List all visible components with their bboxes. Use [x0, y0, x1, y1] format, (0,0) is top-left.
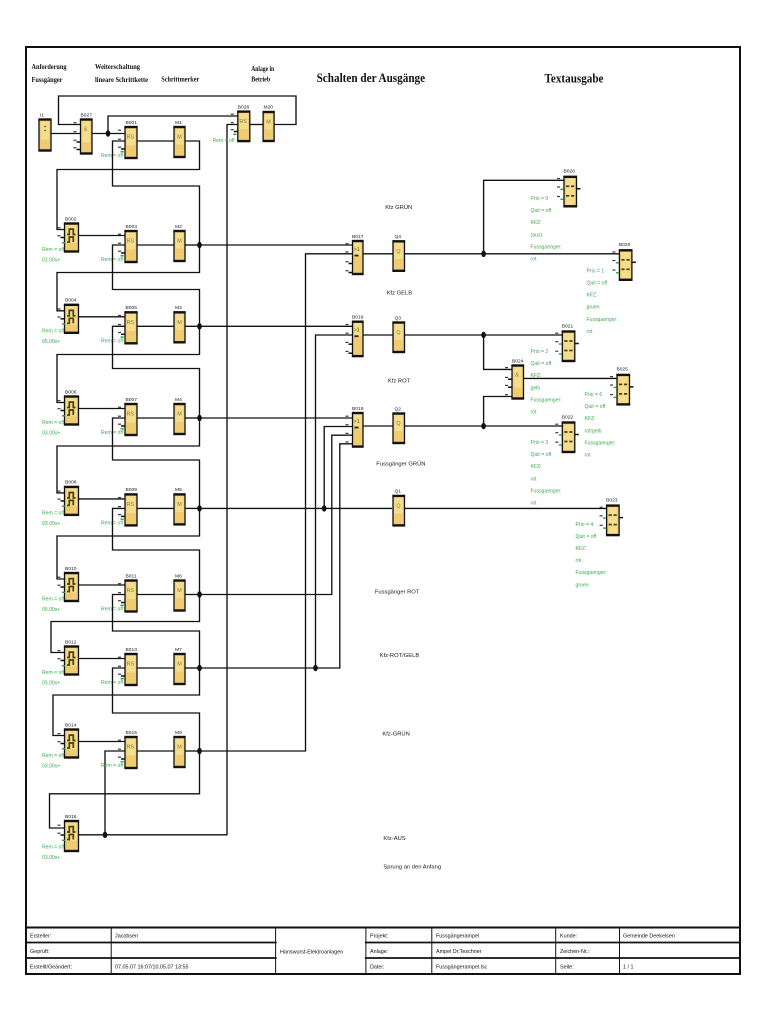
svg-text:01.00s+: 01.00s+ — [42, 258, 60, 264]
svg-text:Rem = off: Rem = off — [42, 328, 65, 334]
svg-text:KFZ:: KFZ: — [531, 220, 542, 226]
wire timer output to RS S input row 7 — [79, 658, 126, 660]
timer B012 — [58, 639, 80, 674]
node junction Q4 rail to B026 — [481, 251, 486, 257]
svg-text:rot: rot — [587, 329, 594, 335]
svg-text:Quit = off: Quit = off — [587, 281, 608, 287]
timer B002 — [58, 216, 80, 251]
wire M output to rail junction row 7 — [185, 667, 200, 669]
svg-text:>1: >1 — [354, 247, 360, 253]
svg-text:Prio = 3: Prio = 3 — [531, 440, 549, 446]
svg-text:Q4: Q4 — [395, 234, 402, 240]
title Schalten der Ausgänge — [317, 70, 426, 85]
wire set staircase row 3 junction to next timer Trg input — [57, 326, 200, 402]
svg-text:RS: RS — [127, 502, 135, 508]
rs-latch B003 — [118, 224, 138, 262]
svg-text:07.05.07 16:07/10.05.07 13:55: 07.05.07 16:07/10.05.07 13:55 — [115, 965, 188, 971]
svg-text:M: M — [177, 320, 182, 326]
node junction Q1 rail to B019 input 2 — [322, 505, 327, 511]
svg-text:Kfz-GRÜN: Kfz-GRÜN — [382, 731, 409, 738]
flag M3 — [173, 305, 185, 342]
message block B022 — [555, 414, 579, 452]
column header Weiterschaltung lineare Schrittkette — [95, 62, 149, 84]
svg-text:M: M — [177, 745, 182, 751]
svg-text:Kfz GRÜN: Kfz GRÜN — [385, 204, 412, 211]
wire B027 output to B001 S input — [92, 133, 125, 135]
parameter label B001 Rem = off — [101, 153, 124, 159]
svg-text:Sprung an den Anfang: Sprung an den Anfang — [383, 865, 441, 871]
wire set staircase row 6 junction to next timer Trg input — [51, 595, 200, 653]
svg-text:B025: B025 — [617, 367, 629, 373]
wire M output to rail junction row 4 — [185, 417, 200, 419]
svg-text:Quit = off: Quit = off — [531, 208, 552, 214]
wire M output to rail junction row 2 — [185, 244, 200, 246]
svg-text:Anlage:: Anlage: — [370, 949, 388, 955]
parameter label B009 Rem = off — [101, 520, 124, 526]
column header Schrittmerker — [161, 75, 200, 84]
svg-text:B018: B018 — [352, 315, 364, 321]
wire M1 output staircase to B002 Trg input — [57, 141, 200, 230]
wire B017 output to Q4 input — [363, 253, 393, 255]
svg-text:Fussgaenger:: Fussgaenger: — [531, 397, 562, 403]
wire Q2 rail junction up to B024 input 4 — [484, 397, 512, 427]
section label Kfz GRÜN — [385, 204, 412, 211]
flag M1 — [173, 120, 185, 157]
svg-text:RS: RS — [239, 119, 247, 125]
parameter label B007 Rem = off — [101, 430, 124, 436]
svg-text:Fussgänger: Fussgänger — [32, 75, 64, 84]
message block B023 — [600, 497, 624, 535]
svg-text:Zeichen-Nr.:: Zeichen-Nr.: — [560, 949, 589, 955]
flag M7 — [173, 647, 185, 684]
svg-text:Fussgänger GRÜN: Fussgänger GRÜN — [376, 461, 425, 468]
svg-text:M: M — [177, 412, 182, 418]
or-gate B017 — [346, 234, 364, 274]
svg-text:M20: M20 — [264, 104, 274, 110]
rs-latch B028 — [231, 104, 251, 141]
wire Q3 rail junction down to B024 input 1 — [484, 335, 512, 369]
timer B010 — [58, 566, 80, 601]
svg-text:lineare Schrittkette: lineare Schrittkette — [95, 75, 149, 84]
svg-text:Q: Q — [396, 249, 400, 255]
svg-text:B015: B015 — [126, 730, 138, 736]
wire rail row 8 M9 to B017 input 2 — [200, 254, 353, 751]
svg-text:M: M — [177, 239, 182, 245]
svg-text:Prio = 1: Prio = 1 — [587, 268, 605, 274]
rs-latch B015 — [118, 730, 138, 768]
flag M5 — [173, 487, 185, 524]
svg-text:gruen: gruen — [576, 582, 589, 588]
svg-text:Rem = off: Rem = off — [42, 247, 65, 253]
node junction on B016 output rail — [103, 832, 108, 838]
svg-text:M5: M5 — [175, 487, 182, 493]
wire M output to rail junction row 3 — [185, 325, 200, 327]
svg-text:B014: B014 — [65, 722, 77, 728]
svg-text:Q3: Q3 — [395, 315, 402, 321]
text annotation B023 — [576, 522, 607, 589]
svg-text:M9: M9 — [175, 730, 182, 736]
section label Kfz-GRÜN — [382, 731, 409, 738]
flag M6 — [173, 573, 185, 610]
svg-text:Schalten der Ausgänge: Schalten der Ausgänge — [317, 70, 426, 85]
parameter label B014 Rem = off / 03.00s+ — [42, 753, 65, 770]
parameter label B011 Rem = off — [101, 607, 124, 613]
svg-text:B006: B006 — [65, 389, 77, 395]
wire RS output to M input row 6 — [137, 594, 174, 596]
wire B024 output to B025 En input — [524, 377, 618, 379]
parameter label B016 Rem = off / 03.00s+ — [42, 845, 65, 862]
svg-text:I1: I1 — [40, 112, 44, 118]
svg-text:Kfz GELB: Kfz GELB — [387, 290, 413, 296]
svg-text:gruen: gruen — [587, 305, 600, 311]
node rail junction row 2 — [197, 242, 202, 248]
wire set staircase row 8 junction to B016 Trg input — [50, 751, 200, 828]
output Q2 — [392, 406, 405, 443]
svg-text:RS: RS — [127, 588, 135, 594]
parameter label B004 Rem = off / 05.00s+ — [42, 328, 65, 345]
section label Fussgänger ROT — [375, 590, 420, 596]
svg-text:M: M — [177, 135, 182, 141]
wire timer output to RS S input row 8 — [79, 741, 126, 743]
svg-text:Fussgaenger:: Fussgaenger: — [585, 440, 616, 446]
wire B028 output to M20 input — [250, 124, 263, 126]
parameter label B012 Rem = off / 05.00s+ — [42, 670, 65, 687]
flag M2 — [173, 224, 185, 261]
svg-text:Rem = off: Rem = off — [42, 597, 65, 603]
message block B021 — [555, 323, 579, 361]
wire timer output to RS S input row 3 — [79, 316, 126, 318]
svg-text:B016: B016 — [65, 814, 77, 820]
wire rail row 6 M6 to B019 input 3 — [200, 435, 353, 594]
output Q3 — [392, 315, 405, 352]
wire reset staircase row 7 junction to row 6 RS R input — [113, 595, 200, 669]
wire B018 output to Q3 input — [363, 334, 393, 336]
svg-text:Fussgaenger:: Fussgaenger: — [576, 570, 607, 576]
wire RS output to M input row 5 — [137, 507, 174, 509]
svg-text:Prio = 0: Prio = 0 — [531, 196, 549, 202]
parameter label B015 Rem = off — [101, 763, 124, 769]
svg-text:RS: RS — [127, 412, 135, 418]
svg-text:Prio = 4: Prio = 4 — [576, 522, 594, 528]
svg-text:rot/gelb: rot/gelb — [585, 428, 602, 434]
svg-text:Textausgabe: Textausgabe — [545, 70, 604, 85]
svg-text:B028: B028 — [238, 104, 250, 110]
wire M output to rail junction row 8 — [185, 750, 200, 752]
svg-text:B013: B013 — [126, 647, 138, 653]
svg-text:KFZ:: KFZ: — [531, 464, 542, 470]
svg-text:M: M — [177, 588, 182, 594]
svg-text:B008: B008 — [65, 480, 77, 486]
wire RS output to M input row 3 — [137, 325, 174, 327]
wire B016 output to B028 R input — [79, 125, 238, 835]
wire RS output to M input row 2 — [137, 244, 174, 246]
node junction row 7 rail to B018 input 2 — [313, 665, 318, 671]
wire set staircase row 2 junction to next timer Trg input — [57, 245, 200, 311]
rs-latch B009 — [118, 487, 138, 525]
node rail junction row 3 — [197, 323, 202, 329]
svg-text:Anlage in: Anlage in — [251, 64, 274, 73]
svg-text:Erstellt/Geändert:: Erstellt/Geändert: — [30, 965, 72, 971]
svg-text:Rem = off: Rem = off — [213, 138, 236, 144]
svg-text:B021: B021 — [562, 323, 574, 329]
text annotation B021 — [531, 349, 562, 416]
svg-text:B023: B023 — [606, 497, 618, 503]
svg-text:Datei:: Datei: — [370, 965, 384, 971]
and-gate B027 — [74, 112, 93, 153]
timer B008 — [58, 480, 80, 515]
svg-text:M: M — [177, 662, 182, 668]
svg-text:Fussgänger ROT: Fussgänger ROT — [375, 590, 420, 596]
svg-text:Rem = off: Rem = off — [42, 845, 65, 851]
svg-text:Prio = 2: Prio = 2 — [531, 349, 549, 355]
svg-text:Rem = off: Rem = off — [101, 430, 124, 436]
svg-text:M2: M2 — [175, 224, 182, 230]
wire B016 output junction to B015 R input — [105, 751, 125, 835]
rs-latch B013 — [118, 647, 138, 685]
svg-text:rot: rot — [531, 476, 538, 482]
parameter label B003 Rem = off — [101, 257, 124, 263]
message block B025 — [610, 367, 634, 405]
svg-text:RS: RS — [127, 662, 135, 668]
svg-text:RS: RS — [127, 320, 135, 326]
node rail junction row 7 — [197, 665, 202, 671]
svg-text:rot: rot — [531, 257, 538, 263]
svg-text:Q: Q — [396, 330, 400, 336]
svg-text:Kfz-ROT/GELB: Kfz-ROT/GELB — [380, 653, 420, 659]
svg-text:Rem = off: Rem = off — [42, 670, 65, 676]
wire rail row 4 M4 to B019 input 1 — [200, 417, 353, 419]
timer B014 — [58, 722, 80, 757]
svg-text:Fussgaenger:: Fussgaenger: — [531, 244, 562, 250]
svg-text:05.00s+: 05.00s+ — [42, 339, 60, 345]
message block B026 — [557, 169, 581, 207]
section label Kfz ROT — [388, 379, 411, 385]
svg-text:B027: B027 — [81, 112, 93, 118]
svg-text:Rem = off: Rem = off — [42, 420, 65, 426]
parameter label B005 Rem = off — [101, 338, 124, 344]
or-gate B018 — [346, 315, 364, 357]
wire rail row 2 M2 to B017 input 1 — [200, 244, 353, 246]
svg-text:Rem = off: Rem = off — [101, 763, 124, 769]
timer B006 — [58, 389, 80, 424]
svg-text:M4: M4 — [175, 397, 182, 403]
svg-text:Projekt:: Projekt: — [370, 934, 388, 940]
svg-text:Quit = off: Quit = off — [531, 361, 552, 367]
message block B020 — [612, 242, 636, 280]
svg-text:B004: B004 — [65, 298, 77, 304]
svg-text:B026: B026 — [564, 169, 576, 175]
svg-text:B017: B017 — [352, 234, 364, 240]
svg-text:RS: RS — [127, 239, 135, 245]
svg-text:Kunde:: Kunde: — [560, 934, 577, 940]
parameter label B002 Rem = off / 01.00s+ — [42, 247, 65, 264]
title Textausgabe — [545, 70, 604, 85]
text annotation B020 — [587, 268, 618, 335]
svg-text:M3: M3 — [175, 305, 182, 311]
svg-text:&: & — [84, 127, 88, 133]
svg-text:Fussgängerampel.lsc: Fussgängerampel.lsc — [436, 965, 488, 971]
svg-text:B011: B011 — [126, 573, 137, 579]
svg-text:Rem = off: Rem = off — [42, 510, 65, 516]
wire timer output to RS S input row 4 — [79, 408, 126, 410]
svg-text:B019: B019 — [352, 406, 364, 412]
svg-text:KFZ:: KFZ: — [585, 416, 596, 422]
svg-text:Weiterschaltung: Weiterschaltung — [95, 62, 140, 71]
svg-text:Anforderung: Anforderung — [32, 62, 67, 71]
svg-text:Q1: Q1 — [395, 489, 402, 495]
svg-text:Ampel Dr.Teschner: Ampel Dr.Teschner — [436, 949, 482, 955]
wire B019 output to Q2 input — [363, 425, 393, 427]
svg-text:Rem = off: Rem = off — [42, 753, 65, 759]
svg-text:B009: B009 — [126, 487, 138, 493]
svg-text:03.00s+: 03.00s+ — [42, 855, 60, 861]
svg-text:Kfz ROT: Kfz ROT — [388, 379, 411, 385]
wire I1 output to B027 input 2 — [51, 133, 81, 135]
svg-text:B020: B020 — [619, 242, 631, 248]
rs-latch B001 — [118, 120, 138, 158]
wire set staircase row 7 junction to next timer Trg input — [53, 668, 200, 736]
svg-text:M7: M7 — [175, 647, 182, 653]
svg-text:Rem = off: Rem = off — [101, 520, 124, 526]
node rail junction row 5 — [197, 505, 202, 511]
or-gate B019 — [346, 406, 364, 447]
svg-text:M6: M6 — [175, 573, 182, 579]
svg-text:B022: B022 — [562, 414, 574, 420]
node junction Q3 rail to B024 — [481, 332, 486, 338]
svg-text:rot: rot — [531, 410, 538, 416]
svg-text:B007: B007 — [126, 397, 138, 403]
column header Anforderung Fussgaenger — [32, 62, 67, 84]
svg-text:rot: rot — [531, 501, 538, 507]
svg-text:Ersteller:: Ersteller: — [30, 934, 51, 940]
svg-text:Q: Q — [396, 421, 400, 427]
column header Anlage in Betrieb — [251, 64, 274, 83]
svg-text:Geprüft:: Geprüft: — [30, 949, 49, 955]
text annotation B025 — [585, 392, 616, 459]
svg-text:Hanswurst-Elektroanlagen: Hanswurst-Elektroanlagen — [280, 950, 343, 956]
node junction B027 output — [106, 130, 111, 136]
rs-latch B007 — [118, 397, 138, 435]
wire RS output to M input row 4 — [137, 417, 174, 419]
section label Kfz-ROT/GELB — [380, 653, 420, 659]
wire timer output to RS S input row 6 — [79, 584, 126, 586]
wire reset staircase row 5 junction to row 4 RS R input — [113, 418, 200, 508]
and-gate B024 — [505, 358, 524, 398]
svg-text:05.00s+: 05.00s+ — [42, 681, 60, 687]
wire reset staircase row 2 junction to row 1 RS R input — [113, 141, 200, 245]
wire row 7 junction up to B018 input 2 — [316, 335, 353, 668]
flag M4 — [173, 397, 185, 434]
svg-text:M1: M1 — [175, 120, 182, 126]
svg-text:Quit = off: Quit = off — [585, 404, 606, 410]
parameter label B010 Rem = off / 05.00s+ — [42, 597, 65, 614]
input I1 — [38, 112, 51, 150]
node rail junction row 4 — [197, 415, 202, 421]
wire M output to rail junction row 6 — [185, 594, 200, 596]
wire RS output to M input row 7 — [137, 667, 174, 669]
wire rail row 7 M7 to B019 input 4 — [200, 444, 353, 668]
section label Kfz GELB — [387, 290, 413, 296]
svg-text:Rem = off: Rem = off — [101, 607, 124, 613]
svg-text:Kfz-AUS: Kfz-AUS — [383, 836, 405, 842]
svg-text:03.00s+: 03.00s+ — [42, 431, 60, 437]
svg-text:Q2: Q2 — [395, 406, 402, 412]
svg-text:>1: >1 — [354, 419, 360, 425]
flag M9 — [173, 730, 185, 767]
wire reset staircase row 6 junction to row 5 RS R input — [113, 508, 200, 594]
svg-text:03.00s+: 03.00s+ — [42, 521, 60, 527]
svg-text:B001: B001 — [126, 120, 138, 126]
svg-text:1 / 1: 1 / 1 — [623, 965, 634, 971]
wire Q4 output rail to B020 En input — [405, 253, 620, 255]
svg-text:Rem = off: Rem = off — [101, 257, 124, 263]
title block table — [26, 928, 740, 975]
text annotation B022 — [531, 440, 562, 507]
text annotation B026 — [531, 196, 562, 263]
wire feedback M20 output to B027 input 1 — [59, 96, 297, 125]
svg-text:RS: RS — [127, 135, 135, 141]
svg-text:B002: B002 — [65, 216, 77, 222]
timer B016 — [58, 814, 80, 851]
svg-text:Rem = off: Rem = off — [101, 153, 124, 159]
svg-text:Quit = off: Quit = off — [531, 452, 552, 458]
svg-text:RS: RS — [127, 745, 135, 751]
output Q4 — [392, 234, 405, 271]
parameter label B028 Rem = off — [213, 138, 236, 144]
svg-text:rot: rot — [585, 453, 592, 459]
parameter label B013 Rem = off — [101, 680, 124, 686]
section label Sprung an den Anfang — [383, 865, 441, 871]
flag M20 — [263, 104, 275, 141]
wire rail row 3 M3 to B018 input 1 — [200, 325, 353, 327]
rs-latch B005 — [118, 305, 138, 343]
svg-text:03.00s+: 03.00s+ — [42, 764, 60, 770]
svg-text:gelb: gelb — [531, 385, 541, 391]
svg-text:Fussgängerampel: Fussgängerampel — [436, 934, 479, 940]
svg-text:B012: B012 — [65, 639, 77, 645]
wire B001 output to M1 input — [137, 140, 174, 142]
svg-text:05.00s+: 05.00s+ — [42, 607, 60, 613]
svg-text:M: M — [266, 120, 271, 126]
svg-text:>1: >1 — [354, 328, 360, 334]
wire node above B027 output to B028 S input — [108, 116, 238, 134]
wire set staircase row 4 junction to next timer Trg input — [57, 418, 200, 493]
svg-text:KFZ:: KFZ: — [531, 373, 542, 379]
rs-latch B011 — [118, 573, 138, 611]
wire reset staircase row 8 junction to row 7 RS R input — [113, 668, 200, 751]
parameter label B008 Rem = off / 03.00s+ — [42, 510, 65, 527]
wire Q2 output rail to B022 En input — [405, 425, 563, 427]
svg-text:B010: B010 — [65, 566, 77, 572]
svg-text:rot: rot — [576, 558, 583, 564]
svg-text:Seite:: Seite: — [560, 965, 574, 971]
output Q1 — [392, 489, 405, 526]
wire Q3 output rail to B021 En input — [405, 334, 563, 336]
wire timer output to RS S input row 5 — [79, 498, 126, 500]
svg-text:Fussgaenger:: Fussgaenger: — [531, 488, 562, 494]
wire RS output to M input row 8 — [137, 750, 174, 752]
svg-text:Q: Q — [396, 503, 400, 509]
svg-text:KFZ:: KFZ: — [587, 293, 598, 299]
svg-text:Prio = 6: Prio = 6 — [585, 392, 603, 398]
svg-text:KFZ:: KFZ: — [576, 546, 587, 552]
svg-text:(aus): (aus) — [531, 232, 543, 238]
node rail junction row 6 — [197, 591, 202, 597]
svg-text:Rem = off: Rem = off — [101, 680, 124, 686]
wire reset staircase row 3 junction to row 2 RS R input — [113, 245, 200, 326]
svg-text:Betrieb: Betrieb — [251, 74, 270, 83]
node junction Q2 rail to B024 — [481, 423, 486, 429]
